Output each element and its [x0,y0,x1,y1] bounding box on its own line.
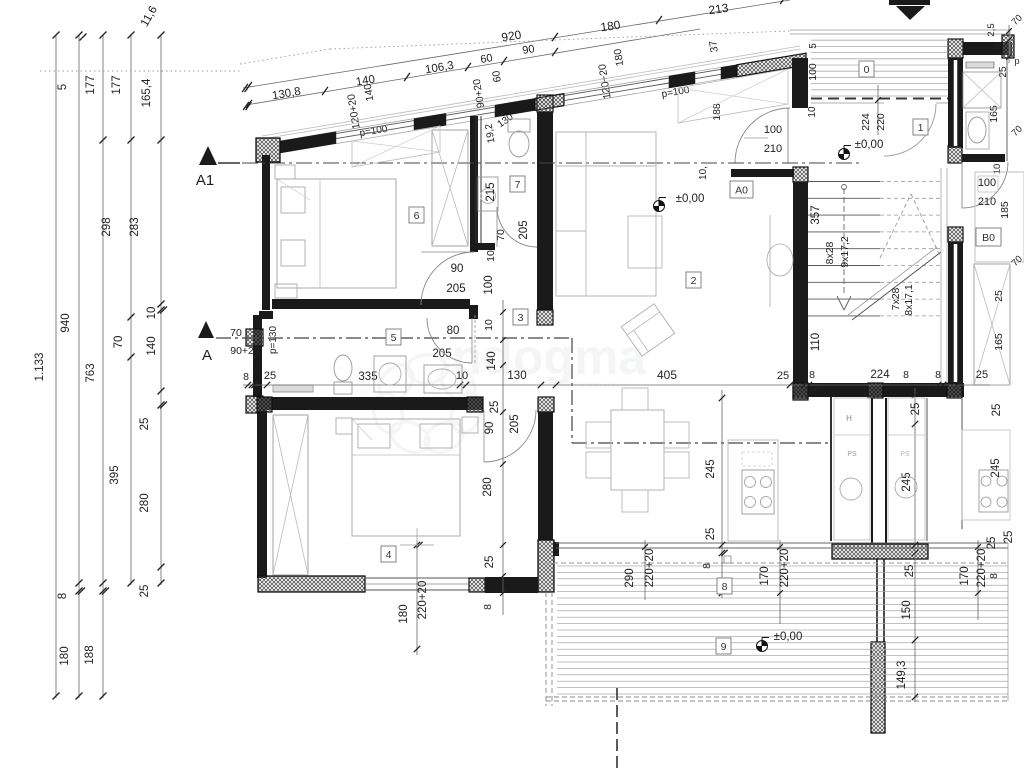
terrace hatch lines [557,565,1008,567]
watermark logo [370,329,648,458]
svg-text:205: 205 [509,414,521,433]
stairwell east edge [940,168,942,383]
svg-text:8: 8 [722,581,728,593]
canopy lines top right [790,29,1010,31]
hall dashed jamb [474,315,476,365]
stair break line [852,252,941,320]
WC partition wall [475,116,477,243]
left exterior wall bedroom 6 [262,155,270,310]
unit1 hall wardrobe [678,69,788,123]
unit1 shower [963,72,1001,108]
svg-text:2: 2 [691,275,697,287]
svg-text:90+20: 90+20 [230,345,260,357]
unit1 bedroom west wall [948,227,963,242]
svg-text:215: 215 [485,182,497,201]
svg-text:357: 357 [810,205,822,224]
svg-text:25: 25 [904,565,916,578]
party wall terrace pier [871,642,885,733]
svg-text:283: 283 [129,217,141,236]
svg-text:140: 140 [486,351,498,370]
left dimension chain lines [55,35,57,698]
eaves lines above top wall [262,49,800,139]
section marker A1 [199,146,217,165]
corridor door arc [884,104,936,156]
neighbor kitchen [961,399,963,529]
svg-text:10: 10 [146,307,158,320]
svg-text:8: 8 [701,563,713,569]
dining table [611,410,664,490]
svg-text:150: 150 [901,600,913,619]
left wall bedroom 4 [257,410,267,578]
svg-text:210: 210 [978,196,996,208]
svg-text:100: 100 [483,275,495,294]
svg-text:8: 8 [809,369,815,381]
unit1 bathroom radiator [966,62,994,68]
WC toilet [508,119,530,132]
svg-text:100: 100 [764,124,782,136]
svg-text:245: 245 [901,472,913,491]
bathroom5 washer [374,356,406,392]
terrace bottom edge dashed [546,696,1008,698]
A0 stub wall [731,169,794,177]
svg-text:8: 8 [243,371,249,383]
section line A1-A0 horizontal [218,162,240,164]
svg-text:7: 7 [515,179,521,191]
stair niche arc [769,215,771,307]
svg-text:140: 140 [146,336,158,355]
stair dashed upper flight treads [880,181,941,183]
svg-text:90: 90 [451,263,464,275]
svg-text:100: 100 [978,177,996,189]
svg-text:110: 110 [810,333,822,351]
svg-text:245: 245 [705,459,717,478]
svg-text:8: 8 [809,389,820,395]
svg-text:PS: PS [900,451,910,458]
svg-text:280: 280 [482,477,494,496]
svg-text:210: 210 [764,143,782,155]
svg-text:±0,00: ±0,00 [774,631,803,643]
svg-text:90: 90 [484,422,496,435]
svg-text:25: 25 [489,401,501,414]
svg-text:8: 8 [903,369,909,381]
svg-text:940: 940 [60,313,72,332]
svg-text:5: 5 [57,84,69,90]
svg-text:298: 298 [101,217,113,236]
svg-text:205: 205 [432,348,451,360]
living west wall [537,95,553,112]
entrance hatch area 0 [811,33,948,35]
bedroom 4 top wall [257,397,483,410]
svg-text:60: 60 [490,70,504,84]
svg-text:±0,00: ±0,00 [855,139,884,151]
svg-text:4: 4 [386,549,392,561]
svg-text:1.133: 1.133 [34,353,46,382]
svg-text:5: 5 [808,43,819,49]
label B0 [976,228,1001,246]
stair west wall [793,167,808,182]
sofa [556,132,656,296]
svg-text:130: 130 [507,370,526,382]
boundary dashdot vertical [616,688,618,768]
svg-text:165,4: 165,4 [141,78,153,107]
bedroom6 nightstands [275,165,295,179]
bed center line [416,528,418,578]
unit1 bathroom bottom wall [962,154,1005,162]
svg-text:170: 170 [759,566,771,585]
svg-text:A0: A0 [735,184,748,196]
svg-text:180: 180 [59,646,71,665]
svg-text:25: 25 [1003,531,1015,544]
level marker living [654,201,665,212]
svg-text:180: 180 [600,18,622,35]
svg-text:100: 100 [807,63,819,81]
top-left corner column [256,138,280,162]
svg-text:p: p [1014,56,1019,66]
bedroom4 wardrobe [273,415,308,575]
svg-text:185: 185 [999,201,1011,219]
bedroom 4 door arc [484,410,536,462]
bedroom4 bed [352,419,460,536]
svg-text:224: 224 [860,113,872,131]
svg-text:405: 405 [657,368,677,382]
WC stub wall [472,243,495,250]
left wall bathroom 5 [253,315,262,397]
svg-text:25: 25 [976,369,988,381]
svg-text:25: 25 [991,404,1003,417]
svg-text:A: A [202,347,212,364]
svg-text:220+20: 220+20 [644,549,656,588]
bathroom5 door arc [427,318,472,363]
party wall below stairs [871,398,873,544]
top outer dimension chain 920/180/213 [243,0,790,88]
bedroom 4 west wall lower [538,397,554,412]
armchair [621,304,674,356]
svg-text:335: 335 [358,371,377,383]
svg-text:A1: A1 [196,172,214,189]
svg-text:177: 177 [111,75,123,94]
bathroom5 radiator [273,385,313,392]
svg-text:8: 8 [57,593,69,599]
svg-text:PS: PS [847,451,857,458]
bedroom4 nightstands [336,418,352,434]
entrance arrow [889,0,930,5]
svg-text:205: 205 [518,220,530,239]
svg-text:177: 177 [85,75,97,94]
unit1 bedroom door arc [962,162,1008,208]
svg-text:10,: 10, [698,166,709,180]
unit1 east boundary [1006,57,1008,161]
nook counters [834,398,870,540]
svg-text:25: 25 [986,537,998,550]
stair walk line [843,188,845,296]
svg-text:395: 395 [109,465,121,484]
party wall hatch bar [832,544,928,559]
unit1 entry door arc [735,108,790,163]
svg-text:90: 90 [521,43,535,57]
svg-text:10: 10 [485,250,497,262]
svg-text:25: 25 [993,290,1005,302]
unit1 toilet [966,112,989,149]
svg-text:245: 245 [990,458,1002,477]
terrace top edge [556,542,1008,544]
dim verticals bottom [416,540,418,655]
svg-text:10: 10 [483,319,495,331]
svg-text:nekretnine d.o.o.: nekretnine d.o.o. [555,380,630,391]
kitchen nook wall [830,397,832,541]
unit1 bathroom west wall [948,39,963,58]
svg-text:220+20: 220+20 [976,549,988,588]
svg-text:70: 70 [113,336,125,349]
svg-text:10: 10 [807,106,818,118]
svg-text:763: 763 [85,363,97,382]
svg-text:2,5: 2,5 [986,23,997,36]
top inner dimension chain 130,8/140/106,3/60/90 [246,29,700,105]
svg-text:7x28: 7x28 [890,287,902,310]
party wall lower lines [876,559,878,643]
svg-text:8: 8 [988,573,1000,579]
svg-text:1: 1 [918,122,924,134]
bedroom6 top cabinet [352,126,440,167]
svg-text:9x17,2: 9x17,2 [839,236,851,268]
main dimension line y385 [243,384,990,386]
label A0 [730,181,753,198]
top diagonal wall [280,132,336,153]
svg-text:B0: B0 [982,232,995,244]
double wall white seam [954,60,958,146]
unit1 bed [975,172,1024,262]
bedroom 6 door arc [421,252,474,305]
svg-text:37: 37 [707,40,721,54]
svg-text:H: H [846,414,852,423]
svg-text:280: 280 [139,493,151,512]
svg-text:25: 25 [139,418,151,431]
stair dashed chevron [880,194,911,258]
svg-text:60: 60 [479,52,493,66]
svg-text:220+20: 220+20 [779,549,791,588]
svg-text:8x17,1: 8x17,1 [903,284,915,316]
room number labels [859,61,874,77]
svg-text:25: 25 [264,370,276,382]
svg-text:224: 224 [870,369,890,381]
svg-text:8: 8 [993,44,1004,49]
dim line x915 [914,388,916,702]
svg-text:10: 10 [992,164,1003,175]
svg-text:80: 80 [447,325,460,337]
WC door arc [497,207,537,247]
svg-text:3: 3 [518,312,524,324]
bathroom5 toilet [334,382,352,394]
svg-text:25: 25 [139,585,151,598]
level marker terrace [757,641,768,652]
svg-text:6: 6 [414,210,420,222]
svg-text:25: 25 [705,528,717,541]
dotted boundary line top [40,70,240,72]
svg-text:5: 5 [391,332,397,344]
section marker A [198,321,214,338]
left dim ticks [53,32,60,39]
bedroom4 south-east wall [469,578,485,592]
svg-text:70: 70 [495,229,507,241]
svg-text:±0,00: ±0,00 [676,193,705,205]
bedroom6 wardrobe [432,130,468,246]
entry hall west wall [792,58,808,108]
svg-text:25: 25 [777,370,789,382]
svg-text:0: 0 [864,64,870,76]
svg-text:205: 205 [446,283,465,295]
svg-text:25: 25 [910,403,922,416]
svg-text:8: 8 [935,369,941,381]
section line A horizontal [216,337,573,339]
svg-text:170: 170 [959,566,971,585]
corridor width dim [877,85,879,135]
bedroom 4 bottom wall [258,576,365,592]
bathroom5 vanity [424,365,462,393]
kitchen counter [728,440,778,541]
svg-text:70: 70 [230,327,242,339]
bedroom 6 right wall [470,116,478,252]
dim line x722 [721,390,723,598]
svg-text:165: 165 [993,333,1005,351]
unit1 bathroom top wall [963,42,1012,55]
terrace right edge [1007,543,1009,701]
svg-text:220: 220 [875,113,887,131]
svg-text:149,3: 149,3 [896,661,908,690]
terrace left edge dashed [545,592,547,706]
svg-text:8: 8 [482,604,494,610]
svg-text:188: 188 [84,645,96,664]
svg-text:8x28: 8x28 [824,241,836,264]
stair treads [808,181,880,183]
bedroom 6 bottom wall [272,299,470,309]
unit1 wardrobe [974,264,1010,385]
level marker entry [839,149,850,160]
svg-text:290: 290 [624,568,636,587]
svg-text:9: 9 [721,641,727,653]
bedroom 4 south window [365,577,469,579]
stair bottom wall [793,383,964,397]
svg-text:220+20: 220+20 [417,581,429,620]
svg-text:p=130: p=130 [268,326,279,355]
dim vertical x503 bedroom4 [502,300,504,615]
WC sink [478,177,498,211]
svg-text:25: 25 [484,556,496,569]
svg-text:213: 213 [708,1,730,18]
bedroom6 bed [277,179,396,288]
top right small dims [1008,25,1010,63]
svg-text:180: 180 [398,604,410,623]
